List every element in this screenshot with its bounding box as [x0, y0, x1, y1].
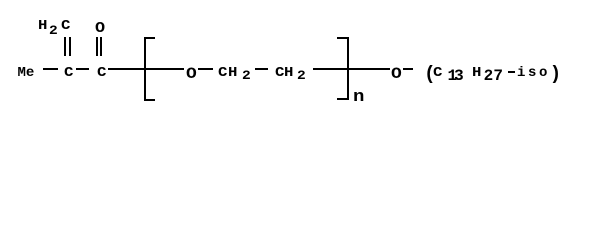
atom label H2C : C	[61, 19, 70, 33]
repeat subscript n	[353, 89, 364, 106]
group label hyphen	[508, 71, 514, 73]
atom label CH2 (first) : subscript 2	[242, 69, 251, 82]
atom ether O (repeat unit)	[186, 66, 197, 82]
atom label CH2 (first) : CH	[218, 66, 227, 80]
double bond C=O line 2	[100, 37, 102, 57]
bond Me-C	[43, 68, 59, 70]
atom C1 (vinyl carbon)	[64, 66, 73, 80]
atom label CH2 (second) : subscript 2	[297, 69, 306, 82]
right bracket vertical	[347, 37, 349, 100]
right bracket top foot	[337, 37, 349, 39]
group label iso	[517, 66, 550, 80]
group label subscript 13	[448, 68, 461, 84]
atom label Me	[18, 66, 35, 80]
group label closing paren	[550, 65, 561, 84]
bond C2 to repeat unit (through left bracket)	[108, 68, 184, 70]
atom C2 (carbonyl carbon)	[97, 66, 106, 80]
atom ester O (right)	[391, 66, 402, 82]
double bond C=CH2 line 1	[64, 37, 66, 57]
atom label CH2 (second) : CH	[275, 66, 284, 80]
bond CH2-CH2	[255, 68, 268, 70]
left bracket vertical	[144, 37, 146, 101]
right bracket bottom foot	[337, 98, 349, 100]
atom label H2C : subscript 2	[49, 24, 58, 37]
left bracket top foot	[144, 37, 155, 39]
left bracket bottom foot	[144, 99, 155, 101]
bond C1-C2	[76, 68, 89, 70]
group label (C13H27-iso) : (C	[424, 65, 435, 84]
double bond C=O line 1	[96, 37, 98, 57]
group label subscript 27	[484, 68, 504, 84]
atom carbonyl O	[95, 21, 105, 36]
atom label H2C : H	[38, 19, 47, 33]
bond O-(C13H27-iso)	[403, 68, 413, 70]
bond O-CH2	[198, 68, 213, 70]
double bond C=CH2 line 2	[69, 37, 71, 57]
group label H	[472, 66, 481, 80]
bond CH2 to right bracket (through bracket)	[313, 68, 390, 70]
